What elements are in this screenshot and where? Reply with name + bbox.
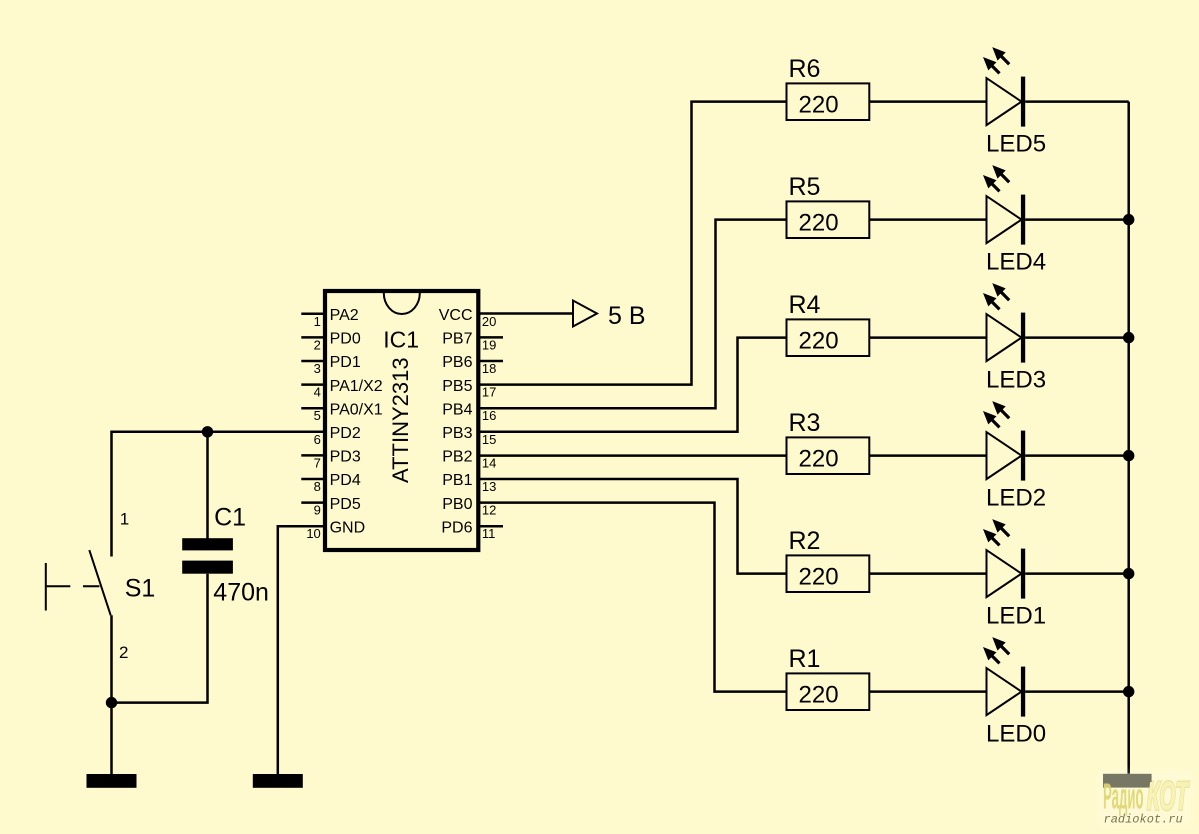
watermark radiokot bbox=[1098, 770, 1192, 827]
ground (LED bus) bbox=[1103, 774, 1152, 788]
wire C1 top lead bbox=[206, 432, 209, 539]
svg-text:PA2: PA2 bbox=[330, 307, 359, 324]
svg-text:Радио: Радио bbox=[1103, 776, 1144, 817]
pin 13 PB1 bbox=[442, 472, 496, 494]
wire PD2 pin6 to switch and C1 bbox=[112, 432, 326, 557]
svg-text:PD5: PD5 bbox=[330, 496, 361, 513]
svg-text:radiokot.ru: radiokot.ru bbox=[1104, 813, 1183, 827]
wire PB5 pin17 to R6 bbox=[478, 102, 786, 385]
5V supply arrow bbox=[573, 301, 597, 327]
svg-text:11: 11 bbox=[482, 526, 496, 541]
resistor R3 bbox=[787, 409, 870, 474]
junction node on bus bbox=[1123, 686, 1134, 697]
svg-text:PB7: PB7 bbox=[442, 331, 472, 348]
pin 12 PB0 bbox=[442, 496, 496, 518]
svg-text:7: 7 bbox=[314, 455, 321, 470]
svg-text:9: 9 bbox=[314, 503, 321, 518]
wire GND pin10 to ground bbox=[278, 526, 325, 774]
svg-text:18: 18 bbox=[482, 361, 496, 376]
LED LED4 bbox=[983, 165, 1046, 276]
pin 1 PA2 bbox=[301, 307, 358, 329]
ground (IC GND) bbox=[253, 774, 303, 788]
svg-text:PB6: PB6 bbox=[442, 354, 472, 371]
svg-text:470n: 470n bbox=[213, 578, 269, 606]
svg-text:R2: R2 bbox=[789, 527, 821, 555]
wire PB2 pin14 to R3 bbox=[478, 454, 786, 457]
svg-text:16: 16 bbox=[482, 408, 496, 423]
svg-text:PA0/X1: PA0/X1 bbox=[330, 401, 383, 418]
pin 7 PD3 bbox=[301, 449, 361, 471]
junction node on bus bbox=[1123, 332, 1134, 343]
svg-text:PB1: PB1 bbox=[442, 472, 472, 489]
svg-text:VCC: VCC bbox=[439, 307, 473, 324]
svg-text:R4: R4 bbox=[789, 291, 821, 319]
watermark text fills bbox=[1103, 775, 1190, 827]
pin 4 PA1/X2 bbox=[301, 378, 382, 400]
capacitor C1 bbox=[182, 504, 269, 607]
svg-text:5: 5 bbox=[314, 408, 321, 423]
svg-text:220: 220 bbox=[799, 445, 839, 472]
svg-text:1: 1 bbox=[314, 314, 321, 329]
pin 6 PD2 bbox=[314, 425, 361, 447]
svg-text:PD2: PD2 bbox=[330, 425, 361, 442]
junction node on bus bbox=[1123, 568, 1134, 579]
svg-text:PB0: PB0 bbox=[442, 496, 472, 513]
LED LED3 bbox=[983, 283, 1046, 394]
LED LED5 bbox=[983, 47, 1046, 158]
wire R1 to LED0 bbox=[869, 690, 986, 693]
junction node on bus bbox=[1123, 450, 1134, 461]
pin 19 PB7 bbox=[442, 331, 503, 353]
pin 10 GND bbox=[306, 519, 365, 541]
svg-text:LED4: LED4 bbox=[986, 249, 1046, 276]
svg-text:R6: R6 bbox=[789, 55, 821, 83]
svg-text:PD3: PD3 bbox=[330, 449, 361, 466]
svg-text:19: 19 bbox=[482, 337, 496, 352]
pin 9 PD5 bbox=[301, 496, 361, 518]
svg-text:2: 2 bbox=[119, 643, 128, 662]
wire LED1 cathode to bus bbox=[1025, 572, 1129, 575]
wire R3 to LED2 bbox=[869, 454, 986, 457]
wire LED5 cathode to bus bbox=[1025, 100, 1129, 103]
pin 8 PD4 bbox=[301, 472, 361, 494]
pin 17 PB5 bbox=[442, 378, 496, 400]
svg-text:220: 220 bbox=[799, 209, 839, 236]
wire PB1 pin13 to R2 bbox=[478, 479, 786, 574]
svg-text:PD0: PD0 bbox=[330, 331, 361, 348]
svg-text:GND: GND bbox=[330, 519, 366, 536]
resistor R4 bbox=[787, 291, 870, 356]
pin 11 PD6 bbox=[441, 519, 503, 541]
LED LED2 bbox=[983, 401, 1046, 512]
svg-text:LED2: LED2 bbox=[986, 485, 1046, 512]
pin 18 PB6 bbox=[442, 354, 503, 376]
svg-text:PB5: PB5 bbox=[442, 378, 472, 395]
svg-text:17: 17 bbox=[482, 385, 496, 400]
resistor R6 bbox=[787, 55, 870, 120]
svg-text:8: 8 bbox=[314, 479, 321, 494]
svg-text:LED1: LED1 bbox=[986, 603, 1046, 630]
resistor R5 bbox=[787, 173, 870, 238]
svg-text:2: 2 bbox=[314, 337, 321, 352]
svg-text:3: 3 bbox=[314, 361, 321, 376]
wire R6 to LED5 bbox=[869, 100, 986, 103]
svg-text:R3: R3 bbox=[789, 409, 821, 437]
wire switch bottom to junction bbox=[110, 615, 113, 702]
wire R5 to LED4 bbox=[869, 218, 986, 221]
IC IC1 ATTINY2313 body bbox=[325, 291, 478, 550]
svg-text:14: 14 bbox=[482, 455, 496, 470]
wire R4 to LED3 bbox=[869, 336, 986, 339]
svg-text:PB2: PB2 bbox=[442, 449, 472, 466]
svg-text:LED3: LED3 bbox=[986, 367, 1046, 394]
svg-text:220: 220 bbox=[799, 563, 839, 590]
ground (switch) bbox=[87, 774, 137, 788]
LED LED1 bbox=[983, 519, 1046, 630]
svg-text:220: 220 bbox=[799, 91, 839, 118]
svg-text:C1: C1 bbox=[214, 504, 246, 532]
svg-text:1: 1 bbox=[120, 510, 129, 529]
wire PB0 pin12 to R1 bbox=[478, 503, 786, 692]
wire VCC pin20 to 5V arrow bbox=[478, 312, 573, 315]
wire PB3 pin15 to R4 bbox=[478, 338, 786, 432]
svg-text:5 В: 5 В bbox=[608, 302, 646, 330]
svg-text:20: 20 bbox=[482, 314, 496, 329]
svg-text:PB4: PB4 bbox=[442, 401, 472, 418]
wire C1 bottom lead bbox=[112, 574, 208, 703]
svg-text:12: 12 bbox=[482, 503, 496, 518]
junction node on bus bbox=[1123, 214, 1134, 225]
svg-text:13: 13 bbox=[482, 479, 496, 494]
pin 2 PD0 bbox=[301, 331, 361, 353]
pin 16 PB4 bbox=[442, 401, 496, 423]
resistor R2 bbox=[787, 527, 870, 592]
svg-text:LED0: LED0 bbox=[986, 721, 1046, 748]
svg-text:6: 6 bbox=[314, 432, 321, 447]
svg-text:S1: S1 bbox=[125, 574, 156, 602]
svg-text:ATTINY2313: ATTINY2313 bbox=[388, 357, 413, 483]
wire LED4 cathode to bus bbox=[1025, 218, 1129, 221]
wire LED0 cathode to bus bbox=[1025, 690, 1129, 693]
svg-text:R1: R1 bbox=[789, 645, 821, 673]
svg-text:PB3: PB3 bbox=[442, 425, 472, 442]
pin 5 PA0/X1 bbox=[301, 401, 382, 423]
wire LED2 cathode to bus bbox=[1025, 454, 1129, 457]
resistor R1 bbox=[787, 645, 870, 710]
svg-text:PA1/X2: PA1/X2 bbox=[330, 378, 383, 395]
junction node switch/C1/ground bbox=[106, 697, 117, 708]
pin 14 PB2 bbox=[442, 449, 496, 471]
svg-text:15: 15 bbox=[482, 432, 496, 447]
wire junction to ground bbox=[110, 703, 113, 774]
svg-text:220: 220 bbox=[799, 327, 839, 354]
svg-text:PD6: PD6 bbox=[441, 519, 472, 536]
wire LED3 cathode to bus bbox=[1025, 336, 1129, 339]
wire R2 to LED1 bbox=[869, 572, 986, 575]
svg-text:R5: R5 bbox=[789, 173, 821, 201]
LED LED0 bbox=[983, 637, 1046, 748]
wire PB4 pin16 to R5 bbox=[478, 220, 786, 409]
svg-text:PD1: PD1 bbox=[330, 354, 361, 371]
switch S1 bbox=[46, 510, 155, 662]
svg-text:10: 10 bbox=[306, 526, 320, 541]
pin 3 PD1 bbox=[301, 354, 361, 376]
svg-text:IC1: IC1 bbox=[383, 327, 419, 353]
pin 20 VCC bbox=[439, 307, 497, 329]
svg-text:PD4: PD4 bbox=[330, 472, 361, 489]
pin 15 PB3 bbox=[442, 425, 496, 447]
junction node PD2/C1 bbox=[202, 426, 213, 437]
svg-text:4: 4 bbox=[314, 385, 321, 400]
svg-text:220: 220 bbox=[799, 681, 839, 708]
svg-text:LED5: LED5 bbox=[986, 131, 1046, 158]
wire cathode bus vertical bbox=[1127, 102, 1130, 774]
